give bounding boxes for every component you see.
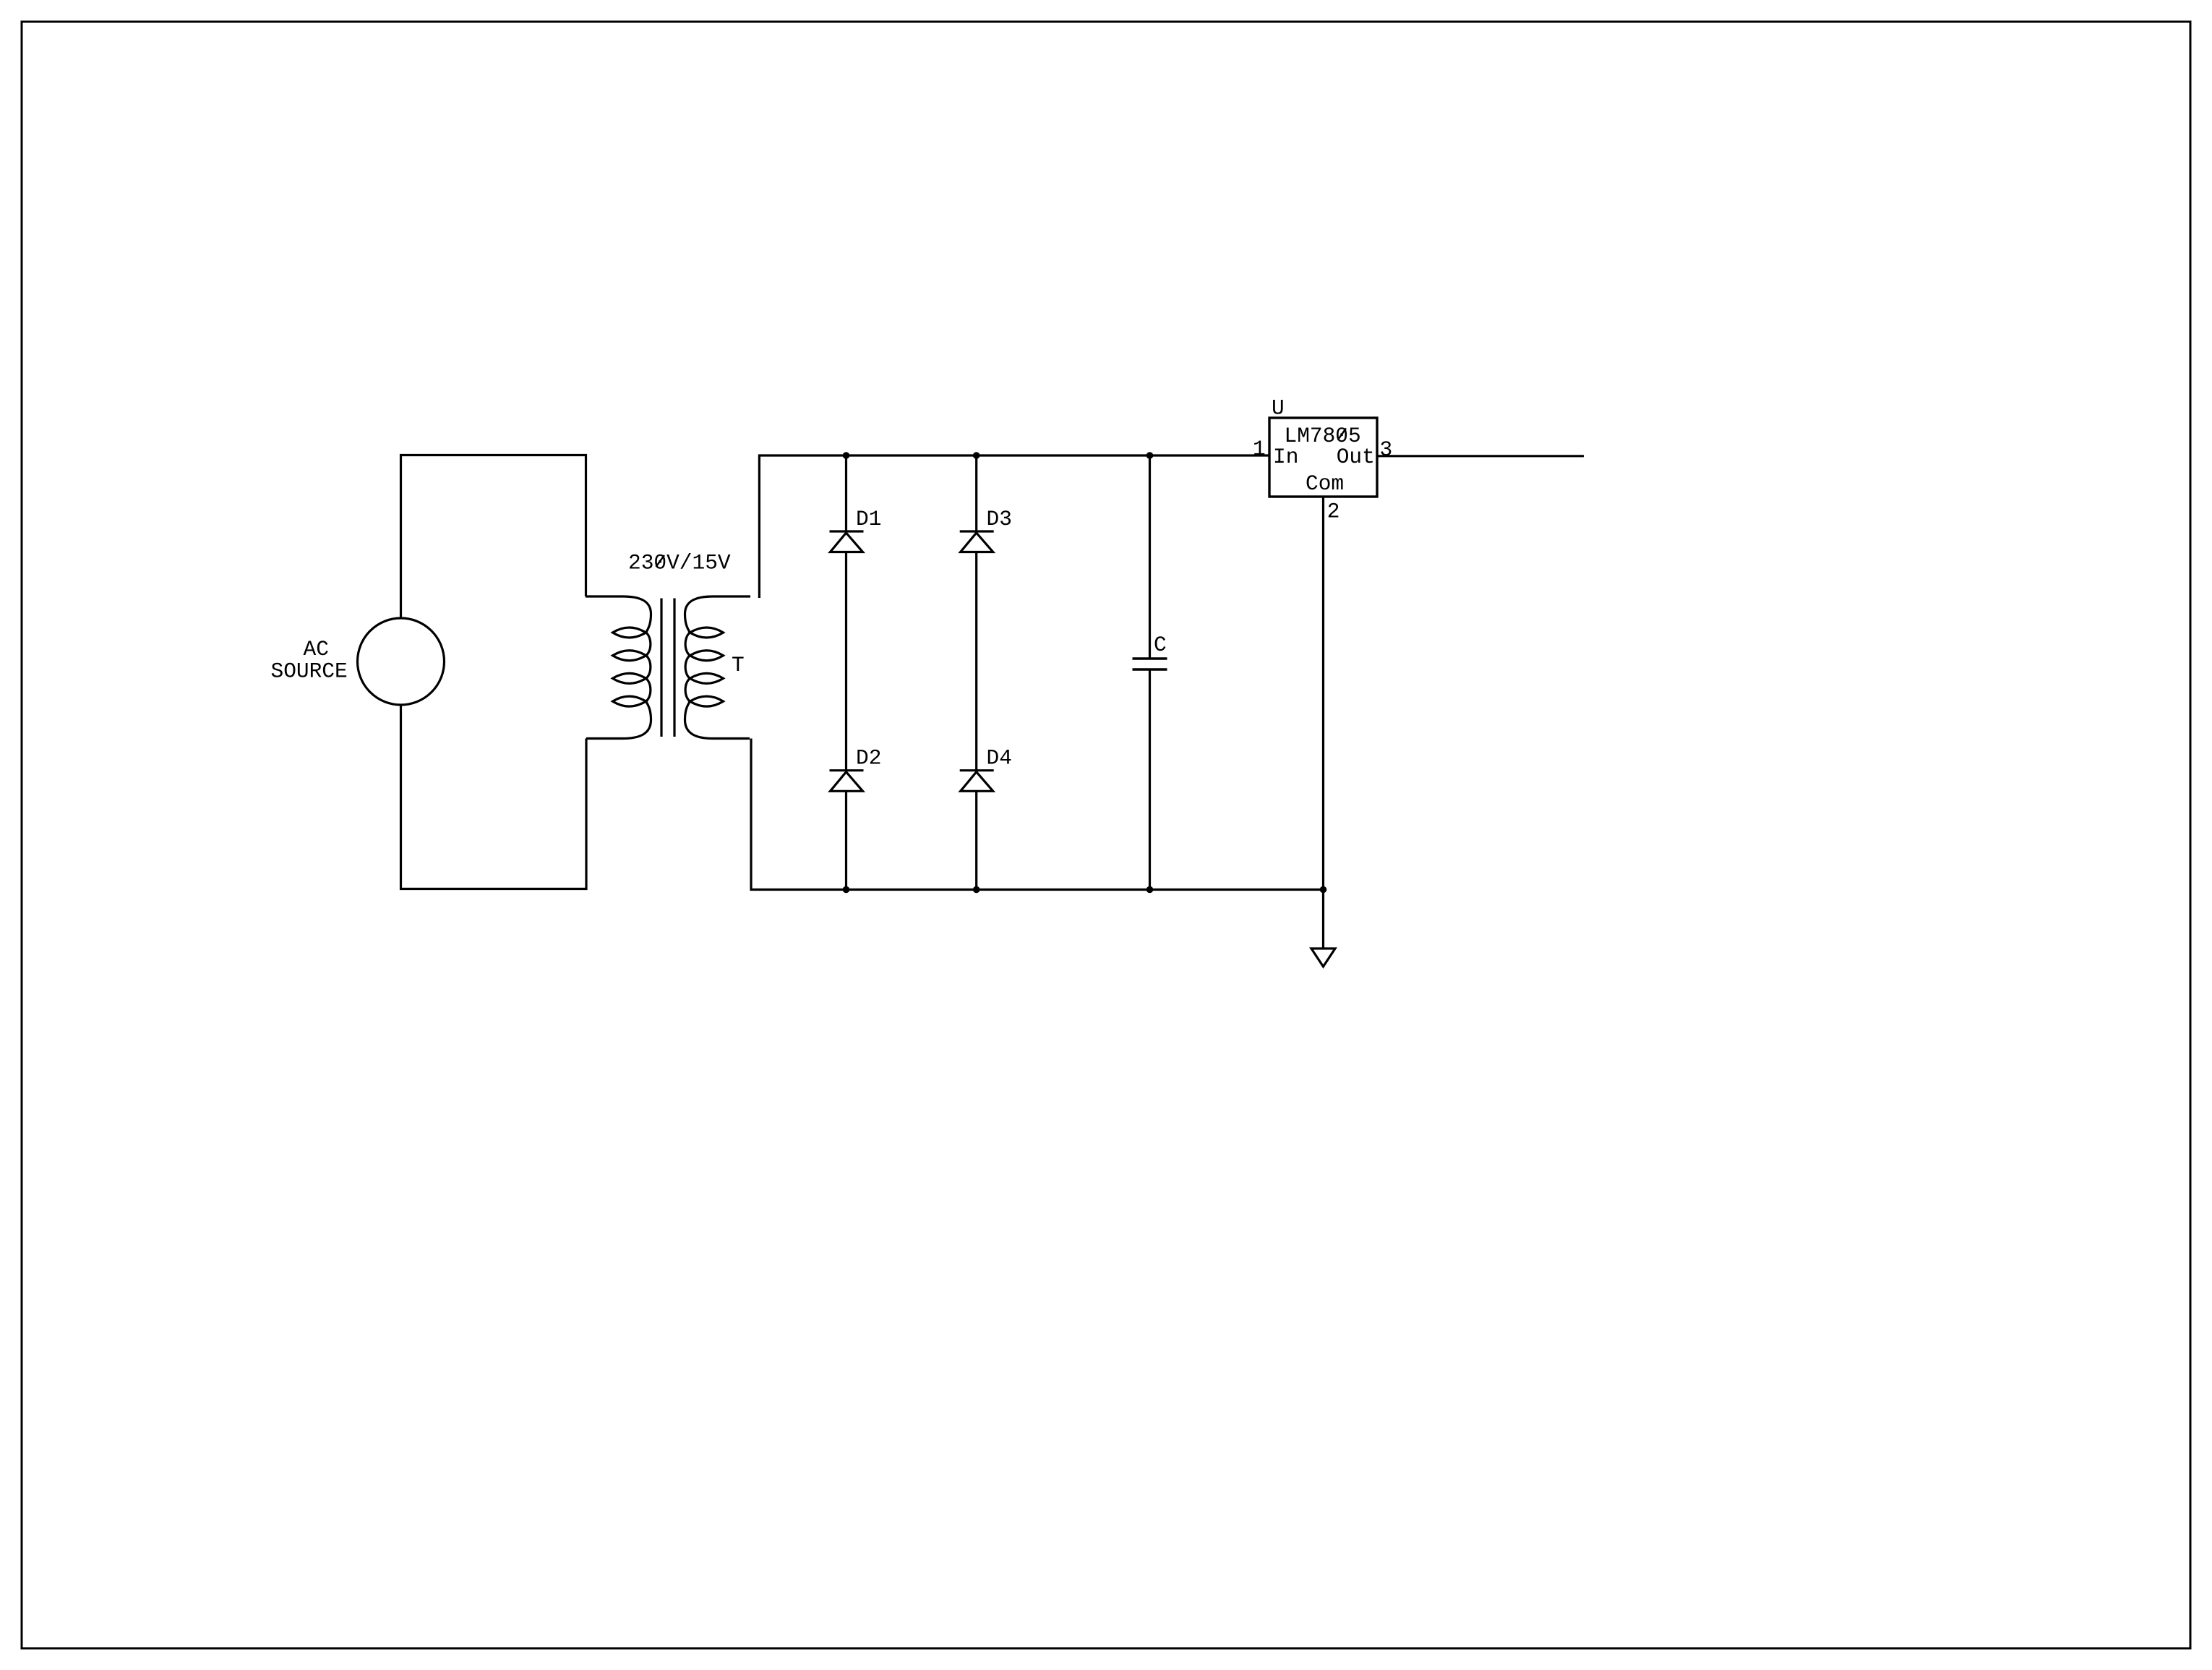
svg-text:230V/15V: 230V/15V <box>628 551 731 575</box>
svg-text:U: U <box>1272 396 1285 421</box>
node junction C bottom <box>1146 886 1154 894</box>
svg-text:Out: Out <box>1337 445 1375 469</box>
wire top rail from transformer secondary to regulator input <box>759 455 1269 598</box>
svg-text:T: T <box>732 653 745 677</box>
wire regulator common pin 2 to ground <box>1322 497 1324 949</box>
svg-text:D4: D4 <box>987 746 1012 771</box>
diode D4 <box>960 746 1012 792</box>
wire diode branch D1/D2 <box>845 455 847 890</box>
svg-text:C: C <box>1154 633 1167 657</box>
svg-text:3: 3 <box>1380 437 1393 462</box>
op-amp style box: voltage regulator U LM7805 <box>1253 396 1392 524</box>
svg-text:In: In <box>1273 445 1298 469</box>
svg-text:D2: D2 <box>856 746 881 771</box>
diode D1 <box>830 507 882 552</box>
svg-text:Com: Com <box>1306 471 1344 496</box>
transformer T secondary winding <box>685 596 751 739</box>
svg-text:D3: D3 <box>987 507 1012 531</box>
capacitor C <box>1133 633 1167 669</box>
wire primary loop left/bottom from AC source to transformer <box>401 705 587 889</box>
wire primary loop left/top from AC source to transformer <box>401 455 586 619</box>
diode D3 <box>960 507 1012 552</box>
svg-text:AC: AC <box>304 637 329 661</box>
svg-text:1: 1 <box>1253 437 1266 461</box>
transformer T primary winding <box>586 596 651 739</box>
node junction C top <box>1146 452 1154 459</box>
svg-text:SOURCE: SOURCE <box>271 659 348 684</box>
ground <box>1311 949 1335 967</box>
svg-text:D1: D1 <box>856 507 881 531</box>
node junction D1 top <box>843 452 850 459</box>
AC source V1 <box>271 618 445 705</box>
transformer T core <box>661 599 674 737</box>
wire diode branch D3/D4 <box>975 455 977 890</box>
svg-text:2: 2 <box>1327 500 1340 524</box>
node junction D4 bottom <box>973 886 980 894</box>
node junction ground <box>1320 886 1327 894</box>
wire bottom rail (0V net) <box>751 739 1324 890</box>
node junction D2 bottom <box>843 886 850 894</box>
node junction D3 top <box>973 452 980 459</box>
wire capacitor branch <box>1149 455 1151 890</box>
wire regulator output pin 3 <box>1377 455 1584 457</box>
diode D2 <box>830 746 882 792</box>
